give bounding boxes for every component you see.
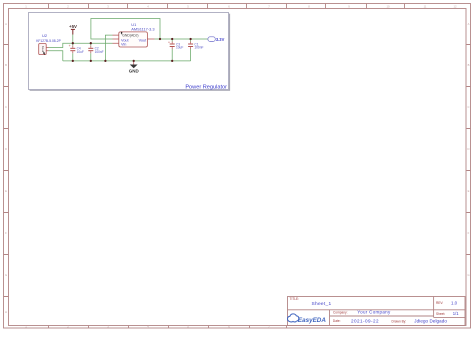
left ticks — [4, 45, 9, 297]
wire: C1 leads — [190, 39, 192, 61]
wire: C3 leads — [171, 39, 173, 61]
svg-text:U2: U2 — [42, 33, 48, 38]
svg-text:10: 10 — [387, 4, 390, 8]
wire: GND rail — [63, 60, 191, 62]
node: ADJ wire to GND rail — [104, 60, 106, 62]
mouse cursor over U2 pin1 — [43, 52, 45, 55]
svg-text:Sheet:: Sheet: — [436, 312, 445, 316]
svg-text:1/1: 1/1 — [453, 311, 459, 316]
wire: C2 leads — [90, 43, 92, 61]
wire: pin1 of U2 to GND rail — [49, 51, 63, 61]
svg-text:Drawn By:: Drawn By: — [392, 319, 407, 323]
svg-text:Company:: Company: — [333, 310, 348, 314]
svg-text:Your Company: Your Company — [357, 309, 391, 314]
svg-text:A: A — [5, 22, 7, 26]
mouse cursor over U1 GND(ADJ) — [121, 32, 123, 35]
svg-text:B: B — [5, 63, 7, 67]
svg-text:G: G — [467, 273, 469, 277]
svg-text:Sheet_1: Sheet_1 — [312, 301, 332, 307]
svg-text:1.0: 1.0 — [451, 300, 458, 305]
bottom ticks — [49, 326, 287, 329]
right ticks — [467, 45, 471, 255]
svg-text:EasyEDA: EasyEDA — [298, 317, 326, 324]
svg-text:Jdiego Delgado: Jdiego Delgado — [414, 318, 447, 323]
svg-text:+: + — [168, 40, 170, 44]
node: C2 top junction — [90, 42, 92, 44]
svg-text:REV:: REV: — [436, 301, 443, 305]
wire: GND(ADJ) pin to GND rail — [105, 35, 112, 61]
svg-text:TITLE:: TITLE: — [290, 297, 300, 301]
svg-text:AMS1117-3.3: AMS1117-3.3 — [131, 26, 154, 31]
svg-text:3.3V: 3.3V — [216, 37, 225, 42]
svg-text:10uF: 10uF — [77, 50, 84, 54]
svg-text:GND: GND — [129, 69, 140, 74]
node: +5V / C4 junction — [72, 42, 74, 44]
capacitor C4 10uF (polarized) — [69, 44, 84, 54]
net flag 3.3V — [208, 37, 225, 42]
svg-text:D: D — [468, 147, 470, 151]
power flag +5V — [69, 24, 77, 34]
svg-text:Vin: Vin — [121, 43, 126, 47]
EasyEDA logo — [287, 314, 326, 324]
capacitor C1 100nF — [188, 42, 203, 50]
wire: +5V stem — [72, 35, 74, 44]
group box Power Regulator — [29, 13, 230, 91]
svg-text:100nF: 100nF — [194, 46, 203, 50]
wire: Vout feedback loop over U1 — [91, 19, 160, 40]
svg-text:10uF: 10uF — [176, 46, 183, 50]
svg-text:H: H — [5, 310, 7, 314]
node: Vout loop junction — [159, 38, 161, 40]
title block — [288, 297, 466, 326]
svg-text:2021-09-22: 2021-09-22 — [351, 318, 379, 323]
node: C2 bottom junction — [90, 60, 92, 62]
svg-text:G: G — [5, 273, 7, 277]
svg-text:Date:: Date: — [333, 319, 341, 323]
node: GND symbol junction — [133, 60, 135, 62]
svg-text:Power Regulator: Power Regulator — [185, 84, 227, 90]
wire: Vout output to 3.3V flag — [155, 38, 208, 40]
node: C3 top junction — [171, 38, 173, 40]
svg-text:E: E — [468, 189, 470, 193]
svg-text:C: C — [468, 105, 470, 109]
wire: C4 leads — [72, 43, 74, 61]
svg-text:B: B — [468, 63, 470, 67]
svg-text:KF127B-5.08-2P: KF127B-5.08-2P — [36, 39, 61, 43]
svg-text:A: A — [468, 22, 470, 26]
svg-text:Vout: Vout — [139, 38, 148, 42]
node: C4 bottom junction — [72, 60, 74, 62]
svg-text:12: 12 — [454, 4, 457, 8]
svg-text:100nF: 100nF — [95, 50, 104, 54]
ground symbol GND — [129, 61, 140, 74]
node: C3 bottom junction — [171, 60, 173, 62]
connector U2 KF127B-5.08-2P — [36, 33, 61, 55]
svg-text:E: E — [5, 189, 7, 193]
junction dots — [72, 38, 192, 62]
wire: pin2 of U2 to +5V rail — [49, 43, 113, 47]
svg-text:+: + — [69, 44, 71, 48]
top ticks — [49, 4, 405, 9]
svg-text:D: D — [5, 147, 7, 151]
svg-text:11: 11 — [424, 4, 427, 8]
capacitor C3 10uF (polarized) — [168, 40, 183, 49]
regulator U1 AMS1117-3.3 — [113, 22, 155, 47]
svg-text:+5V: +5V — [69, 24, 77, 29]
svg-text:C: C — [5, 105, 7, 109]
node: C1 top junction — [189, 38, 191, 40]
svg-text:GND(ADJ): GND(ADJ) — [122, 33, 138, 37]
capacitor C2 100nF — [88, 46, 103, 54]
